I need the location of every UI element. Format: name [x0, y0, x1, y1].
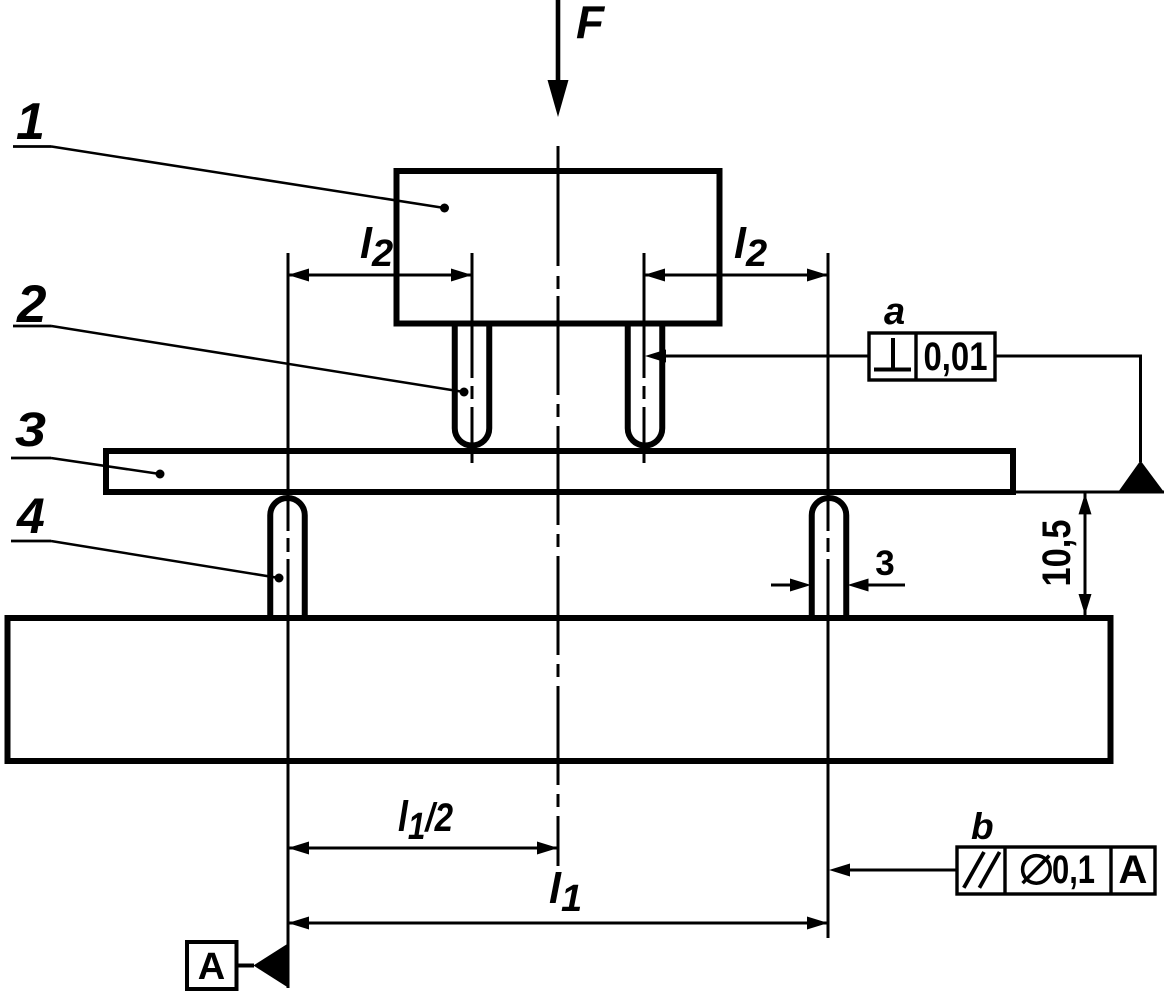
svg-text:A: A [198, 946, 225, 988]
datum triangle a [1119, 461, 1163, 491]
surface extension line right [1013, 491, 1164, 494]
tolerance frame b parallelism [957, 847, 1155, 894]
svg-text:l1/2: l1/2 [398, 793, 453, 848]
leader a left arrow [645, 350, 869, 363]
part 2 upper pin left [455, 324, 490, 446]
dimension 3 [771, 579, 905, 592]
svg-text:0,1: 0,1 [1052, 848, 1095, 892]
svg-text:4: 4 [16, 488, 45, 544]
main centerline [557, 146, 560, 866]
svg-text:3: 3 [875, 544, 894, 583]
extension centerline x288 [287, 253, 290, 988]
part 4 lower pin right [812, 498, 847, 619]
centerline upper pin left [471, 253, 474, 463]
part 4 lower pin left [270, 498, 305, 619]
base block [8, 618, 1111, 761]
dimension l2 right [644, 269, 828, 282]
svg-text:3: 3 [15, 404, 46, 457]
force arrow F [548, 0, 569, 117]
dimension 10,5 [1079, 493, 1092, 615]
part 3 specimen bar [106, 451, 1013, 492]
svg-text:10,5: 10,5 [1035, 520, 1079, 587]
svg-text:0,01: 0,01 [924, 335, 988, 379]
svg-text:F: F [576, 0, 606, 48]
tolerance frame a perpendicularity [869, 333, 995, 380]
part 1 loading block [397, 171, 720, 324]
callout 4 [11, 488, 284, 583]
leader b arrow [829, 864, 957, 877]
centerline upper pin right [643, 253, 646, 463]
callout 2 [13, 275, 469, 397]
svg-text:A: A [1119, 848, 1148, 892]
svg-text:b: b [971, 806, 994, 847]
svg-text:1: 1 [16, 93, 45, 151]
dimension l2 left [288, 269, 472, 282]
extension centerline x828 [827, 253, 830, 938]
svg-text:a: a [884, 291, 905, 333]
part 2 upper pin right [628, 324, 663, 446]
callout 3 [11, 404, 165, 479]
callout 1 [13, 93, 449, 213]
dimension l1 [288, 917, 828, 930]
dimension l1/2 [288, 842, 558, 855]
leader a right [995, 356, 1141, 462]
datum A symbol [187, 942, 288, 989]
